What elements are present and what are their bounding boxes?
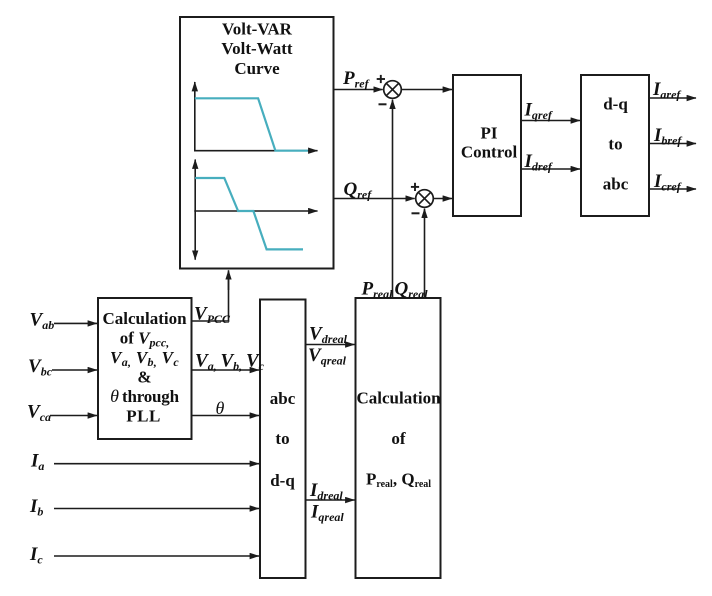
svg-text:Curve: Curve [234,59,280,78]
svg-text:PLL: PLL [126,406,161,425]
svg-text:Vbc: Vbc [28,356,53,379]
svg-text:of Vpcc,: of Vpcc, [120,329,169,350]
svg-text:Ib: Ib [29,496,43,519]
svg-text:Volt-Watt: Volt-Watt [221,39,292,58]
svg-text:to: to [608,135,622,154]
svg-text:PI: PI [481,124,498,143]
wire Vca: input to U4 [27,401,97,424]
svg-text:Ibref: Ibref [653,125,682,148]
svg-text:Volt-VAR: Volt-VAR [222,19,293,38]
block U3: d-q to abc [581,75,649,216]
wire Ib: input to U5 [29,496,259,519]
wire Va Vb Vc: U4 to U5 [192,351,265,374]
wire Ia: input to U5 [30,451,259,474]
svg-text:&: & [137,368,151,387]
wire Iqref: PI Control to d-q block [521,100,580,123]
block U6: Calculation of Preal Qreal [356,298,442,578]
svg-text:Va, Vb, Vc: Va, Vb, Vc [195,351,265,374]
wire Vab: input to U4 [30,309,98,332]
svg-text:Calculation: Calculation [356,389,441,408]
svg-text:d-q: d-q [270,471,295,490]
svg-text:Ia: Ia [30,451,44,474]
wire Ic: input to U5 [29,544,259,567]
svg-text:abc: abc [270,389,296,408]
wire Icref: output of d-q block [649,171,696,194]
wire Qref: U1 to S2 [334,179,415,202]
wire Preal: U6 top to S1 minus input [361,100,394,301]
svg-text:Preal, Qreal: Preal, Qreal [366,470,431,491]
svg-text:Idreal: Idreal [309,480,343,503]
svg-text:Vca: Vca [27,401,51,424]
svg-text:of: of [391,429,406,448]
svg-text:Vab: Vab [30,309,55,332]
block U2: PI Control [453,75,521,216]
wire Pref: U1 to S1 [334,68,383,91]
svg-text:Iqreal: Iqreal [310,502,344,525]
svg-text:d-q: d-q [603,95,628,114]
svg-text:Pref: Pref [342,68,370,91]
block U1: Volt-VAR Volt-Watt Curve [180,17,334,269]
wire Idreal Iqreal: U5 to U6 [306,480,355,524]
block U4: Calculation of Vpcc Va Vb Vc and theta through PLL [98,298,192,439]
wire: S2 to PI Control [433,198,452,200]
svg-text:Vdreal: Vdreal [309,324,348,347]
svg-text:Preal: Preal [361,279,394,302]
wire: S1 to PI Control [401,89,452,91]
svg-text:θ: θ [216,398,225,418]
wire Vdreal Vqreal: U5 to U6 [306,324,355,368]
wire Qreal: U6 top to S2 minus input [395,209,429,301]
curve: Volt-Watt characteristic [195,98,308,150]
wire Ibref: output of d-q block [649,125,696,148]
wire theta: U4 to U5 [192,398,259,418]
graph axes: Volt-Watt plot [194,82,318,152]
svg-text:Vqreal: Vqreal [308,345,347,368]
svg-text:to: to [275,429,289,448]
svg-text:Iaref: Iaref [652,79,681,102]
svg-text:Va, Vb, Vc: Va, Vb, Vc [110,348,179,369]
svg-text:θ through: θ through [110,386,179,406]
svg-text:Ic: Ic [29,544,43,567]
svg-text:Qref: Qref [344,179,373,202]
svg-text:Control: Control [461,142,518,161]
svg-text:abc: abc [603,175,629,194]
wire Iaref: output of d-q block [649,79,696,102]
svg-text:Qreal: Qreal [395,279,429,302]
curve: Volt-VAR characteristic [195,178,303,249]
summing junction S1 [377,75,402,104]
block U5: abc to d-q [260,300,306,579]
svg-text:VPCC: VPCC [194,304,231,327]
wire Vbc: input to U4 [28,356,97,379]
svg-text:Iqref: Iqref [524,100,553,123]
svg-text:Icref: Icref [653,171,682,194]
wire VPCC: U4 to U1 (L shape) [192,270,231,326]
svg-text:Idref: Idref [524,151,553,174]
summing junction S2 [411,183,433,214]
svg-text:Calculation: Calculation [102,309,187,328]
wire Idref: PI Control to d-q block [521,151,580,174]
graph axes: Volt-VAR plot [194,160,317,260]
